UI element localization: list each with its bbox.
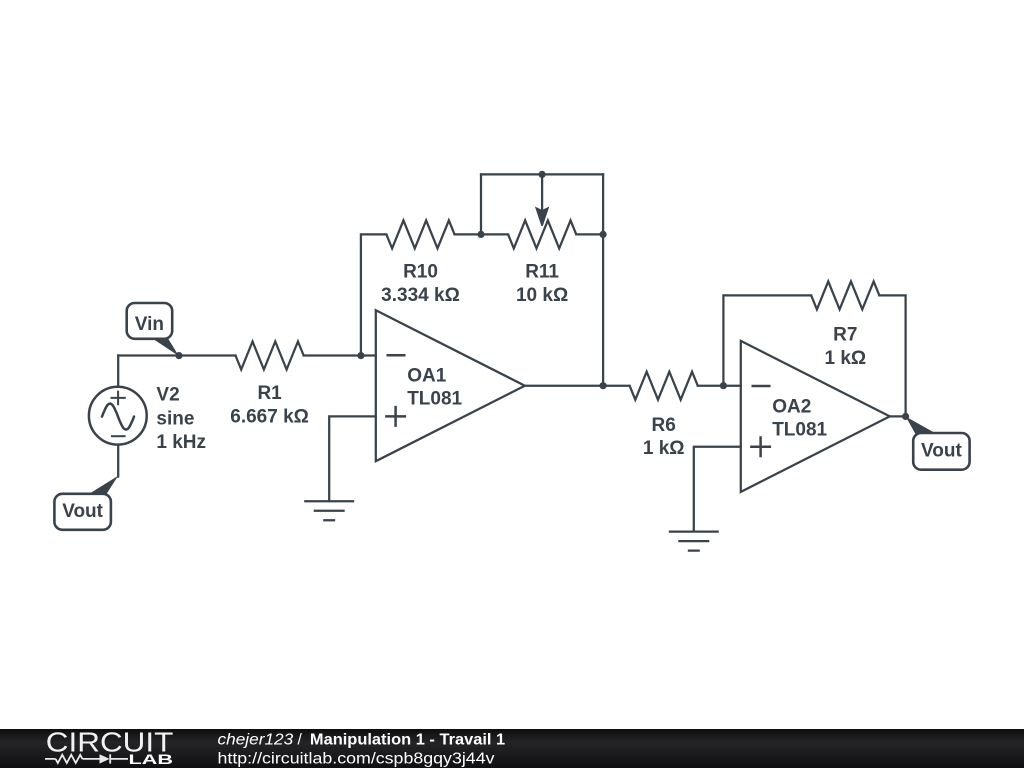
resistor R7 label	[824, 325, 866, 369]
resistor R6	[630, 372, 698, 400]
voltage source V2	[89, 387, 147, 445]
svg-text:1 kΩ: 1 kΩ	[643, 438, 685, 459]
svg-text:/: /	[298, 732, 303, 749]
svg-text:1 kΩ: 1 kΩ	[824, 348, 866, 369]
wire V2 top vertical	[117, 356, 119, 386]
svg-text:TL081: TL081	[772, 419, 827, 440]
svg-text:6.667 kΩ: 6.667 kΩ	[230, 406, 309, 427]
wire OA1 output to R6	[525, 385, 630, 387]
node flag Vout right	[906, 417, 970, 470]
junction node on pot bridge wire	[539, 171, 546, 178]
node flag Vout left	[54, 476, 118, 530]
ground for OA2	[669, 532, 719, 551]
resistor R10 label	[381, 262, 460, 306]
wire R11 wiper stem	[541, 174, 543, 212]
svg-text:Vout: Vout	[62, 501, 103, 522]
op-amp OA2 plus input symbol	[750, 436, 771, 457]
wire R10-R11 junction	[455, 233, 509, 235]
wire pot top bridge left vertical	[480, 174, 482, 234]
resistor R1 label	[230, 383, 309, 427]
op-amp OA1 minus input symbol	[387, 354, 406, 357]
svg-text:Vout: Vout	[921, 441, 962, 462]
wire pot top bridge horizontal	[481, 173, 603, 175]
svg-text:R10: R10	[403, 262, 438, 283]
wire right vertical top to OA1 output	[602, 174, 604, 385]
svg-text:10 kΩ: 10 kΩ	[516, 285, 568, 306]
wire R11 right lead	[576, 233, 603, 235]
svg-text:sine: sine	[156, 409, 194, 430]
resistor R7	[811, 281, 879, 309]
svg-text:1 kHz: 1 kHz	[156, 432, 206, 453]
svg-text:OA1: OA1	[407, 365, 447, 386]
voltage source V2 minus sign	[111, 435, 126, 437]
op-amp OA1 label	[407, 365, 462, 409]
svg-text:R11: R11	[525, 262, 559, 283]
junction node at Vin	[175, 352, 182, 359]
svg-text:R7: R7	[833, 325, 857, 346]
junction node at R11 right end	[600, 231, 607, 238]
junction node at OA2 output	[902, 413, 909, 420]
voltage source V2 sine symbol	[102, 404, 134, 430]
CircuitLab logo resistor-diode doodle	[45, 754, 128, 763]
wire OA2 plus input to ground	[694, 447, 741, 532]
voltage source V2 label	[156, 385, 206, 453]
wire OA2 feedback left vertical	[723, 295, 811, 385]
wire R7 right lead and vertical to output	[879, 295, 905, 416]
op-amp OA1	[376, 310, 525, 461]
wire OA1 inverting feedback vertical	[361, 234, 387, 355]
svg-text:R6: R6	[652, 415, 676, 436]
footer bar	[0, 729, 1024, 768]
CircuitLab logo diode triangle	[100, 754, 110, 763]
potentiometer R11 label	[516, 262, 568, 306]
svg-text:R1: R1	[257, 383, 282, 404]
svg-text:OA2: OA2	[772, 396, 811, 417]
node flag Vin	[127, 303, 179, 356]
svg-text:3.334 kΩ: 3.334 kΩ	[381, 285, 460, 306]
svg-text:Manipulation 1 - Travail 1: Manipulation 1 - Travail 1	[310, 732, 506, 749]
wire OA1 plus input to ground	[329, 416, 376, 501]
voltage source V2 plus sign	[111, 391, 126, 406]
svg-text:Vin: Vin	[135, 314, 164, 335]
svg-text:TL081: TL081	[407, 388, 462, 409]
op-amp OA2 minus input symbol	[752, 385, 771, 388]
svg-text:LAB: LAB	[129, 752, 174, 767]
wire OA2 output	[890, 415, 906, 417]
svg-text:chejer123: chejer123	[218, 732, 294, 749]
svg-text:V2: V2	[156, 385, 179, 406]
potentiometer R11 wiper arrowhead	[535, 207, 549, 227]
junction node at OA1 output	[600, 382, 607, 389]
junction node at OA2 inverting input	[720, 382, 727, 389]
op-amp OA1 plus input symbol	[385, 406, 406, 427]
potentiometer R11	[508, 220, 576, 248]
ground for OA1	[304, 501, 354, 520]
op-amp OA2 label	[772, 396, 827, 440]
resistor R6 label	[643, 415, 685, 459]
op-amp OA2	[741, 341, 890, 492]
junction node between R10 and R11	[477, 231, 484, 238]
wire V2 bottom vertical	[117, 446, 119, 477]
wire input horizontal Vin to OA1	[118, 354, 376, 356]
junction node at OA1 inverting input	[357, 352, 364, 359]
resistor R10	[386, 220, 454, 248]
wire R6 to OA2	[698, 385, 741, 387]
svg-text:http://circuitlab.com/cspb8gqy: http://circuitlab.com/cspb8gqy3j44v	[218, 750, 495, 767]
resistor R1	[236, 342, 304, 370]
